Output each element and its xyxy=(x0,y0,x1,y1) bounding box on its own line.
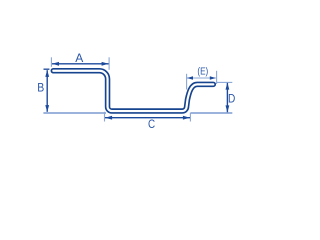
svg-text:B: B xyxy=(37,81,44,95)
profile sheet white core xyxy=(53,71,213,111)
dimension D line xyxy=(226,83,230,113)
label B xyxy=(37,81,44,95)
dimension E line (light between dark arrowheads) xyxy=(187,76,216,79)
dimension B top extension line xyxy=(44,68,50,70)
dimension C left extension line xyxy=(104,112,106,122)
dimension C line xyxy=(105,116,190,120)
dimension A line xyxy=(52,62,109,66)
svg-text:C: C xyxy=(148,117,155,131)
dimension A right extension line xyxy=(108,57,110,70)
dimension A left extension line xyxy=(50,57,52,67)
label D xyxy=(228,91,236,105)
svg-text:(E): (E) xyxy=(197,66,208,77)
dimension C right extension line xyxy=(189,113,191,122)
dimension D top extension line xyxy=(217,81,233,83)
dimension E left extension line xyxy=(186,74,188,90)
label (E) xyxy=(197,66,208,77)
dimension D bottom extension line xyxy=(191,112,232,114)
dimension B bottom extension line (shared with D bottom level) xyxy=(43,112,106,114)
label C xyxy=(148,117,155,131)
profile sheet outer stroke xyxy=(53,71,213,111)
dimension B line xyxy=(45,70,49,112)
svg-text:D: D xyxy=(228,91,236,105)
svg-text:A: A xyxy=(75,51,83,65)
label A xyxy=(75,51,83,65)
dimension E right extension line xyxy=(216,71,218,84)
